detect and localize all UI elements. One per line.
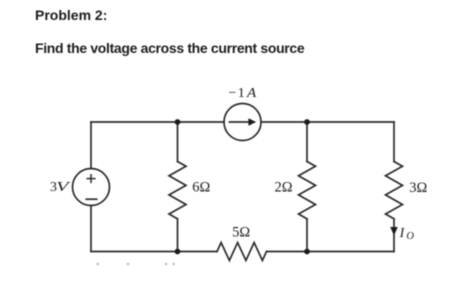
svg-text:3Ω: 3Ω — [409, 180, 427, 196]
resistor 5ohm zigzag — [217, 243, 267, 261]
wire top-left segment — [91, 121, 224, 123]
node dot top-left junction — [175, 119, 181, 125]
title line "Problem 2:" — [35, 8, 107, 22]
wire left branch upper — [90, 122, 92, 169]
wire 2ohm branch upper — [306, 122, 308, 162]
svg-text:IO: IO — [399, 226, 415, 242]
svg-text:5Ω: 5Ω — [232, 225, 250, 241]
wire right branch upper — [393, 122, 395, 162]
faint scan artifacts — [97, 263, 175, 265]
node dot top-right junction — [304, 119, 310, 125]
svg-text:−1A: −1A — [228, 86, 256, 101]
svg-text:3V: 3V — [50, 180, 71, 195]
voltage source minus sign — [86, 198, 96, 200]
wire 2ohm branch lower — [306, 219, 308, 252]
current source arrow shaft — [230, 121, 250, 123]
Io current arrowhead — [390, 227, 398, 236]
wire left branch lower — [90, 206, 92, 252]
current source I1 circle — [224, 104, 261, 141]
wire 6ohm branch lower — [177, 219, 179, 252]
resistor 2ohm zigzag — [299, 162, 316, 219]
resistor 3ohm zigzag — [386, 162, 403, 219]
svg-text:6Ω: 6Ω — [192, 180, 210, 196]
wire 6ohm branch upper — [177, 122, 179, 162]
current source arrowhead — [248, 118, 256, 126]
wire top-right segment — [261, 121, 394, 123]
svg-text:2Ω: 2Ω — [274, 180, 292, 196]
node dot bottom-right junction — [304, 249, 310, 255]
voltage source V1 circle — [73, 169, 110, 206]
wire right branch lower — [393, 219, 395, 252]
instruction line — [35, 41, 304, 55]
node dot bottom-left junction — [175, 249, 181, 255]
resistor 6ohm zigzag — [169, 162, 186, 219]
voltage source plus sign — [87, 175, 95, 183]
wire bottom-right segment — [267, 251, 395, 253]
wire bottom-left segment — [91, 251, 217, 253]
